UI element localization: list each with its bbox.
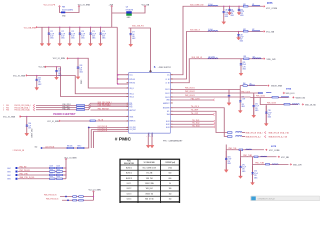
inductor L8 — [208, 4, 218, 7]
resistor RL0b — [57, 167, 63, 169]
junction — [67, 199, 69, 201]
U1 left pins — [127, 73, 129, 76]
capacitor CG — [251, 166, 254, 173]
wire BLK3 — [171, 125, 214, 128]
svg-text:VCC_NB: VCC_NB — [266, 32, 275, 34]
capacitor C65 — [55, 67, 58, 71]
svg-text:VCC_IO_SNN: VCC_IO_SNN — [13, 75, 26, 77]
svg-text:VCC_IO_SNN: VCC_IO_SNN — [47, 121, 59, 123]
inductor LS1 — [236, 131, 242, 134]
label arrow — [26, 75, 28, 77]
wire loop — [60, 6, 80, 12]
pin arrow — [93, 191, 95, 192]
inductor L81 — [252, 4, 260, 7]
wire — [147, 135, 150, 145]
wire VLDO2 — [171, 91, 259, 94]
resistor RM1 — [73, 196, 77, 198]
svg-text:VDD_NB_LX: VDD_NB_LX — [190, 30, 201, 32]
wire row G — [253, 157, 289, 165]
capacitor C76 — [100, 27, 101, 28]
capacitor C85 — [239, 59, 242, 64]
wire — [242, 131, 245, 134]
svg-text:VDD_LDO: VDD_LDO — [286, 93, 295, 95]
inductor LD1 — [292, 103, 300, 106]
resistor RL3a — [50, 178, 56, 180]
junction — [56, 66, 57, 67]
svg-text:VCC_IO_SNN: VCC_IO_SNN — [89, 189, 102, 191]
wire vertical feed — [116, 27, 119, 84]
label arrow — [19, 116, 21, 118]
bracket — [214, 123, 216, 125]
capacitor C93 — [265, 106, 268, 112]
svg-text:VDD_1V8: VDD_1V8 — [267, 59, 277, 61]
resistor RE1 — [239, 149, 243, 151]
resistor R95 — [90, 120, 95, 122]
wire row F — [241, 150, 277, 157]
wire — [239, 157, 242, 176]
resistor RC1 — [272, 97, 278, 99]
capacitor C91 — [239, 99, 242, 102]
wire bank — [38, 26, 118, 29]
ground — [146, 145, 150, 148]
junction — [65, 167, 66, 168]
resistor RF1 — [254, 156, 258, 158]
wire VLDO1 — [171, 88, 241, 91]
svg-text:VDDIO_SD: VDDIO_SD — [296, 97, 306, 99]
label arrow — [290, 164, 292, 166]
wire — [21, 115, 129, 118]
junction — [36, 75, 37, 76]
svg-text:VCC_IO_SNN: VCC_IO_SNN — [3, 117, 16, 119]
bracket — [33, 109, 35, 111]
wire vertical VCC_IO — [64, 159, 67, 179]
wire row PMC_CTRL — [18, 173, 50, 176]
junction — [93, 196, 94, 197]
wire — [60, 195, 94, 198]
bracket — [214, 120, 216, 122]
resistor RD1 — [284, 104, 290, 106]
svg-text:# PMIC: # PMIC — [115, 137, 132, 143]
wire — [92, 191, 95, 200]
wire — [225, 150, 228, 170]
resistor RG1 — [266, 164, 270, 166]
capacitor CF — [239, 158, 242, 166]
resistor RL2b — [57, 174, 63, 176]
capacitor C80 — [223, 6, 224, 7]
wire — [110, 6, 113, 27]
wire — [92, 131, 95, 148]
wire row PMC_PGOOD — [18, 170, 50, 173]
label arrow — [267, 85, 269, 87]
bracket — [214, 126, 216, 128]
svg-text:VCC_IO_SNN: VCC_IO_SNN — [53, 58, 66, 60]
capacitor C75 — [90, 27, 91, 28]
wire LX2 loop — [129, 32, 264, 80]
svg-text:VCC_IO_LPS: VCC_IO_LPS — [44, 5, 56, 7]
wire — [40, 27, 43, 43]
wire stubs with arrows — [117, 73, 128, 76]
label arrow — [36, 26, 38, 28]
svg-text:VCC_NB_SNN: VCC_NB_SNN — [24, 27, 37, 29]
label arrow — [265, 149, 267, 151]
wire pgood row 3 — [36, 108, 77, 111]
pin arrow — [111, 6, 113, 7]
wire SDA — [171, 113, 214, 116]
resistor R90 — [77, 105, 85, 107]
resistor R92 — [77, 109, 85, 111]
inductor LG1 — [272, 163, 278, 166]
capacitor C63 — [76, 58, 79, 67]
wire — [42, 128, 89, 149]
inductor L83 — [253, 57, 262, 60]
wire — [61, 119, 91, 122]
table PMIC regulators — [120, 159, 180, 203]
resistor R97 — [78, 147, 85, 149]
svg-text:VDD_18_SD: VDD_18_SD — [305, 104, 316, 106]
capacitor C66 — [25, 117, 28, 126]
capacitor C81 — [229, 6, 230, 7]
wire row D — [260, 98, 298, 105]
junction — [65, 174, 66, 175]
svg-text:VCC_IO_SNN: VCC_IO_SNN — [78, 5, 91, 7]
resistor RM3 — [73, 200, 77, 202]
svg-text:PMC_TLB: PMC_TLB — [229, 148, 238, 150]
op-amp U1 PMIC body — [129, 73, 171, 134]
svg-text:VCC_CORE: VCC_CORE — [269, 150, 280, 152]
status bar — [251, 196, 320, 201]
label arrow — [45, 66, 47, 68]
capacitor C92 — [252, 95, 255, 106]
wire row E — [226, 145, 264, 150]
wire LDO_PG3 — [94, 130, 129, 133]
U1 bottom pins — [147, 133, 150, 135]
bracket — [33, 104, 35, 106]
junction — [41, 147, 43, 149]
capacitor C73 — [69, 27, 70, 28]
svg-text:VDD_1V8_LX: VDD_1V8_LX — [192, 57, 203, 59]
resistor R81 — [243, 6, 248, 8]
resistor R82 — [243, 31, 248, 33]
capacitor C64 — [35, 76, 38, 80]
inductor LF1 — [261, 155, 267, 158]
svg-text:VCC_CORE: VCC_CORE — [266, 8, 278, 10]
wire BLK1 — [171, 120, 214, 123]
resistor RS2 — [228, 136, 233, 138]
wire — [69, 58, 129, 88]
inductor LC1 — [281, 96, 289, 99]
wire loop — [112, 6, 145, 13]
label arrow — [302, 104, 304, 106]
resistor RM4 — [79, 200, 84, 202]
bracket — [33, 107, 35, 109]
inductor L10 — [208, 57, 218, 60]
wire — [28, 76, 129, 94]
resistor RB1 — [259, 92, 263, 94]
svg-text:0V75: 0V75 — [267, 3, 273, 5]
resistor R91 — [77, 107, 85, 109]
capacitor C72 — [59, 27, 60, 28]
resistor R83 — [244, 58, 250, 60]
wire MODSTBY — [171, 108, 228, 137]
wire — [239, 86, 242, 101]
resistor RL2a — [50, 174, 56, 176]
wire — [62, 199, 94, 202]
resistor RM2 — [79, 196, 84, 198]
label arrow — [59, 120, 61, 122]
capacitor C83 — [238, 31, 239, 32]
resistor RS1 — [228, 132, 233, 134]
U1 right pins — [171, 73, 173, 76]
svg-text:VCC_IO_SNN: VCC_IO_SNN — [64, 158, 77, 160]
inductor LS2 — [236, 135, 242, 138]
wire LDO_PG1 — [89, 126, 129, 129]
capacitor CE — [225, 151, 228, 158]
inductor LA1 — [249, 84, 255, 87]
pin stub top — [149, 71, 152, 73]
capacitor C74 — [79, 27, 80, 28]
wire row SMB_CTRL_IN_DVL — [18, 177, 50, 180]
inductor L82 — [252, 30, 260, 33]
junction — [65, 196, 67, 198]
svg-text:PMC_TLB3: PMC_TLB3 — [255, 163, 264, 165]
bracket — [213, 113, 215, 115]
junction — [88, 127, 90, 129]
wire — [129, 28, 151, 73]
wire — [242, 135, 245, 138]
svg-text:# PGOOD_IN: # PGOOD_IN — [13, 150, 25, 152]
resistor R96 — [67, 147, 74, 149]
resistor RA1 — [243, 85, 247, 87]
svg-text:VDDIO_SNN: VDDIO_SNN — [271, 86, 283, 88]
svg-text:P/S : 14SN0980297: P/S : 14SN0980297 — [163, 141, 183, 143]
capacitor C77 — [129, 28, 132, 34]
svg-text:VCC_NB: VCC_NB — [281, 157, 289, 159]
resistor RL0a — [50, 167, 56, 169]
wire LDO_PG2 — [91, 128, 128, 131]
svg-text:→PMIC SUPPLY: →PMIC SUPPLY — [157, 67, 172, 69]
bracket — [265, 136, 267, 138]
junction — [26, 116, 27, 117]
inductor LB1 — [266, 91, 271, 94]
wire — [265, 105, 268, 124]
wire BLK2 — [171, 123, 214, 126]
svg-text:0V75: 0V75 — [271, 146, 277, 148]
pin arrow — [65, 158, 67, 159]
ground — [40, 44, 44, 47]
resistor RL1b — [57, 171, 63, 173]
svg-text:VCC_NB: VCC_NB — [142, 5, 150, 7]
label arrow — [263, 31, 265, 33]
label arrow — [67, 58, 69, 60]
svg-text:PGOOD X HEXTOUT: PGOOD X HEXTOUT — [53, 114, 76, 116]
wire row PMC_INT — [18, 166, 50, 169]
junction — [77, 58, 78, 59]
bracket — [213, 99, 215, 101]
label arrow — [283, 92, 285, 94]
wire — [251, 165, 254, 183]
wire pgood row 1 — [36, 104, 77, 107]
label arrow — [278, 156, 280, 158]
label arrow — [263, 58, 265, 60]
wire LX3 loop — [129, 59, 264, 83]
svg-text:VDD_1V8: VDD_1V8 — [293, 164, 301, 166]
wire row A — [240, 84, 267, 87]
wire pgood row 2 — [36, 106, 77, 109]
capacitor C71 — [48, 27, 49, 28]
wire SCL — [171, 111, 228, 132]
svg-text:VDD_CORE_LX8: VDD_CORE_LX8 — [190, 5, 203, 7]
bracket — [265, 132, 267, 134]
resistor RL1a — [50, 171, 56, 173]
node diamond — [149, 70, 152, 73]
wire — [252, 93, 255, 115]
wire VLDO3 — [171, 95, 251, 98]
resistor RL3b — [57, 178, 63, 180]
pin arrow — [59, 6, 61, 7]
inductor L9 — [208, 30, 218, 33]
capacitor C90 — [227, 90, 230, 96]
inductor LE1 — [246, 148, 252, 151]
label arrow — [263, 6, 265, 8]
svg-text:PMC_TLB2: PMC_TLB2 — [243, 155, 252, 157]
label arrow — [292, 97, 294, 99]
wire HEXTOUT — [91, 108, 129, 111]
wire VINS — [171, 98, 214, 101]
wire — [47, 67, 129, 97]
svg-text:VDD_1V8_PG: VDD_1V8_PG — [132, 26, 144, 28]
wire — [90, 130, 93, 149]
capacitor C82 — [238, 6, 239, 7]
svg-text:0V95: 0V95 — [286, 89, 292, 91]
junction — [65, 171, 66, 172]
wire LX1 loop — [129, 6, 264, 75]
